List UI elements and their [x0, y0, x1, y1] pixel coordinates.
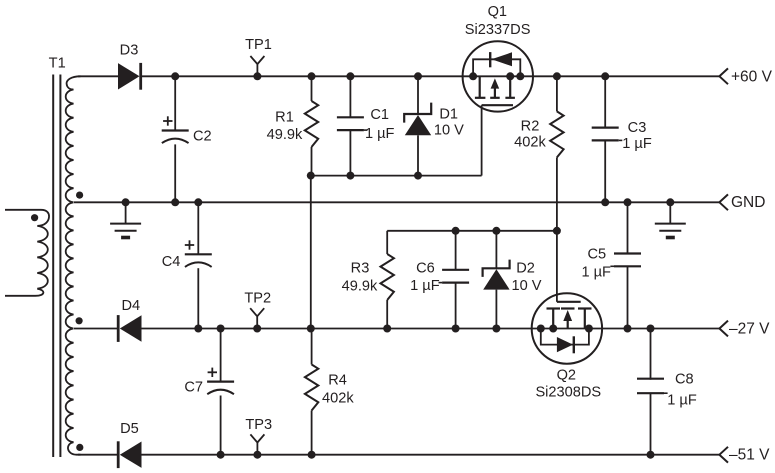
test point TP2 [250, 308, 257, 328]
svg-text:D1: D1 [439, 107, 458, 123]
node dot C3 bottom [601, 198, 609, 206]
C7 plus sign [208, 371, 217, 373]
transformer T1 secondary phase dot (-27 V tap) [76, 317, 83, 324]
svg-text:Q1: Q1 [488, 4, 507, 20]
node dot C1 bottom [346, 172, 354, 180]
wire D1 bottom [417, 135, 419, 175]
test point TP1 [250, 56, 257, 76]
svg-text:T1: T1 [49, 55, 66, 71]
terminal +60 V arrow [719, 68, 728, 84]
node dot ground left [122, 198, 130, 206]
test point TP3 [250, 434, 257, 454]
wire R1 bottom lead [311, 147, 313, 176]
wire C7 top [220, 329, 222, 382]
wire C8 top [650, 329, 652, 380]
resistor R2 [550, 111, 563, 157]
svg-text:R1: R1 [275, 109, 294, 125]
wire C4 bottom [197, 268, 199, 328]
transistor Q2 (N-MOSFET Si2308DS) [532, 293, 602, 363]
C6 leader tick [439, 282, 443, 284]
svg-text:TP3: TP3 [245, 417, 272, 433]
node dot C2 top [171, 72, 179, 80]
wire Q1 gate lead [481, 105, 483, 175]
capacitor C5 [614, 252, 641, 254]
svg-text:49.9k: 49.9k [342, 278, 378, 294]
svg-text:–27 V: –27 V [729, 321, 770, 338]
svg-text:R2: R2 [521, 118, 540, 134]
svg-text:10 V: 10 V [511, 278, 541, 294]
node dot R1 top [308, 72, 316, 80]
svg-text:–51 V: –51 V [729, 447, 770, 464]
C5 leader tick [610, 265, 614, 267]
transistor Q1 (P-MOSFET Si2337DS) [463, 41, 533, 111]
transformer T1 secondary winding top section (+60 V) [66, 76, 81, 202]
node dot Q1 source [469, 72, 477, 80]
wire D2 top [495, 231, 497, 268]
capacitor C1 [337, 116, 364, 118]
svg-text:D4: D4 [121, 298, 140, 314]
node dot D2 top [492, 227, 500, 235]
node dot Q2 body diode left [537, 325, 545, 333]
capacitor C7 (electrolytic) [207, 381, 234, 383]
wire C6 top [455, 231, 457, 270]
wire D1 top [417, 76, 419, 114]
node dot R3 bottom [383, 325, 391, 333]
svg-text:C4: C4 [162, 254, 181, 270]
svg-text:1 µF: 1 µF [622, 136, 652, 152]
transformer T1 primary winding [5, 210, 49, 296]
node dot C5 bottom [624, 325, 632, 333]
transformer T1 secondary winding middle section (GND to -27 V) [66, 202, 74, 328]
transformer T1 secondary phase dot (GND tap) [76, 192, 83, 199]
capacitor C8 [637, 378, 664, 380]
node dot C1 top [346, 72, 354, 80]
wire Q2 gate lead vertical [556, 231, 558, 302]
svg-text:10 V: 10 V [434, 123, 464, 139]
svg-text:C3: C3 [628, 120, 647, 136]
diode D3 [118, 63, 140, 89]
wire Q1 gate node horizontal [311, 175, 482, 177]
wire C5 top [627, 202, 629, 253]
svg-text:C7: C7 [184, 379, 203, 395]
transformer T1 secondary winding bottom section (-27 V to -51 V) [66, 329, 81, 455]
capacitor C4 (electrolytic) [185, 253, 212, 255]
wire C3 bottom [604, 140, 606, 202]
node dot C4 bottom [194, 325, 202, 333]
svg-text:C5: C5 [587, 247, 606, 263]
wire C3 top [604, 76, 606, 127]
C2 plus sign [163, 120, 172, 122]
svg-text:C1: C1 [370, 107, 389, 123]
node dot TP3 [253, 451, 261, 459]
wire R2 top lead [556, 76, 558, 111]
zener diode D1 [404, 103, 431, 123]
wire secondary bottom to D5 cathode [78, 454, 118, 456]
node dot R4 bottom [308, 451, 316, 459]
diode D4 [120, 315, 142, 341]
terminal GND arrow [719, 194, 728, 210]
terminal -27 V arrow [719, 321, 728, 337]
node dot C6 bottom [452, 325, 460, 333]
terminal -51 V arrow [719, 447, 728, 463]
wire C4 top [197, 202, 199, 254]
wire R3 top lead [386, 231, 388, 254]
svg-text:49.9k: 49.9k [267, 127, 303, 143]
resistor R1 [305, 101, 318, 147]
node dot C8 bottom [647, 451, 655, 459]
svg-text:C2: C2 [193, 129, 212, 145]
svg-text:1 µF: 1 µF [667, 392, 697, 408]
C8 leader tick [664, 392, 668, 394]
resistor R4 [305, 365, 318, 411]
wire R1 top lead [311, 76, 313, 101]
wire C5 bottom [627, 266, 629, 328]
svg-text:Si2337DS: Si2337DS [465, 22, 531, 38]
svg-text:C8: C8 [675, 372, 694, 388]
wire -27 V rail [142, 328, 720, 330]
svg-text:1 µF: 1 µF [365, 126, 395, 142]
C4 plus sign [185, 244, 194, 246]
wire C8 bottom [650, 393, 652, 455]
wire R2 bottom lead [556, 157, 558, 230]
resistor R3 [381, 254, 394, 300]
svg-text:Si2308DS: Si2308DS [535, 385, 601, 401]
wire R4 bottom lead [311, 411, 313, 455]
svg-text:C6: C6 [416, 260, 435, 276]
wire C2 top [174, 76, 176, 130]
ground symbol (right, GND rail) [669, 202, 671, 223]
wire +60 V rail [142, 75, 720, 77]
capacitor C3 [592, 126, 619, 128]
wire C2 bottom [174, 144, 176, 202]
svg-text:D2: D2 [516, 260, 535, 276]
wire GND rail [74, 201, 719, 203]
capacitor C6 [442, 269, 469, 271]
node dot C2 bottom [171, 198, 179, 206]
node dot Q2 source stub [549, 325, 557, 333]
node dot C7 bottom [217, 451, 225, 459]
node dot D2 bottom [492, 325, 500, 333]
C3 leader tick [619, 139, 623, 141]
node dot C6 top [452, 227, 460, 235]
wire C1 bottom [349, 130, 351, 176]
zener diode D2 [483, 260, 510, 277]
svg-text:D5: D5 [120, 421, 139, 437]
node dot TP1 [253, 72, 261, 80]
svg-text:GND: GND [731, 194, 765, 211]
capacitor C2 (electrolytic) [162, 129, 189, 131]
svg-text:1 µF: 1 µF [410, 278, 440, 294]
transformer T1 secondary phase dot (-51 V tap) [76, 444, 83, 451]
wire secondary top to D3 anode [78, 75, 118, 77]
transformer T1 core [52, 75, 54, 458]
svg-text:1 µF: 1 µF [581, 265, 611, 281]
node dot D1 top [414, 72, 422, 80]
wire C6 bottom [455, 283, 457, 329]
node dot D1 bottom [414, 172, 422, 180]
node dot Q1 drain stub [506, 72, 514, 80]
node dot C8 top [647, 325, 655, 333]
wire R4 top lead [311, 329, 313, 365]
C1 leader tick [364, 129, 368, 131]
node dot C3 top [601, 72, 609, 80]
node dot TP2 [253, 325, 261, 333]
svg-text:R4: R4 [328, 372, 347, 388]
wire C7 bottom [220, 396, 222, 455]
svg-text:D3: D3 [120, 43, 139, 59]
node dot C5 top [624, 198, 632, 206]
svg-text:R3: R3 [351, 261, 370, 277]
node dot R2 bottom junction [553, 227, 561, 235]
node dot Q2 drain [585, 325, 593, 333]
svg-text:402k: 402k [514, 135, 546, 151]
wire C1 top [349, 76, 351, 117]
wire D2 bottom [495, 290, 497, 329]
node dot C4 top [194, 198, 202, 206]
node dot ground right [666, 198, 674, 206]
svg-text:402k: 402k [322, 391, 354, 407]
diode D5 [120, 442, 142, 468]
node dot C7 top [217, 325, 225, 333]
svg-text:Q2: Q2 [557, 367, 576, 383]
svg-text:TP1: TP1 [245, 37, 272, 53]
node dot Q1 body diode [516, 72, 524, 80]
wire node vertical R1-bottom to -27 rail [310, 176, 312, 329]
svg-text:+60 V: +60 V [731, 69, 773, 86]
wire -51 V rail [142, 454, 720, 456]
wire R3 bottom lead [386, 300, 388, 329]
ground symbol (left, GND rail) [125, 202, 127, 223]
node dot R2 top [553, 72, 561, 80]
node dot node vertical at -27 rail [307, 325, 315, 333]
wire secondary tap to D4 cathode [74, 328, 118, 330]
wire Q2 gate node horizontal [387, 230, 557, 232]
transformer T1 primary phase dot [31, 214, 38, 221]
node dot R1 bottom [307, 172, 315, 180]
svg-text:TP2: TP2 [244, 291, 271, 307]
